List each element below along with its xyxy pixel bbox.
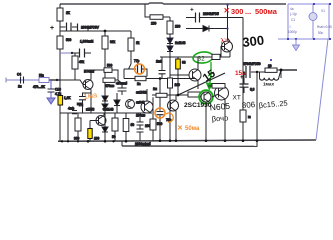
svg-text:ат948: ат948 bbox=[136, 100, 145, 104]
svg-text:806: 806 bbox=[242, 100, 256, 110]
ground blue input bbox=[47, 98, 55, 104]
svg-text:...: ... bbox=[245, 7, 251, 16]
svg-text:+: + bbox=[240, 75, 244, 81]
wire left rail bbox=[59, 4, 61, 141]
svg-text:1000MFD5V: 1000MFD5V bbox=[81, 26, 100, 30]
transistor Q4 bbox=[221, 41, 233, 57]
svg-text:1K: 1K bbox=[66, 11, 71, 15]
svg-text:40k: 40k bbox=[79, 60, 85, 64]
wire output column bbox=[280, 70, 282, 78]
svg-text:50: 50 bbox=[112, 135, 116, 139]
resistor 530 bbox=[57, 36, 94, 49]
svg-text:300: 300 bbox=[242, 32, 265, 50]
svg-text:Rin: Rin bbox=[39, 73, 44, 77]
wire inner bottom bus bbox=[122, 145, 258, 147]
wire bias bus bbox=[60, 27, 131, 31]
resistor 130 horizontal bbox=[145, 15, 170, 26]
svg-text:100: 100 bbox=[175, 83, 181, 87]
wire lower left frame bbox=[60, 113, 152, 141]
wire drop 257 bbox=[256, 72, 258, 146]
transistor Q8 bbox=[90, 113, 106, 126]
svg-text:530: 530 bbox=[66, 38, 72, 42]
node bias bbox=[104, 30, 107, 33]
wire drops to bus bbox=[206, 99, 225, 141]
ground blue sim bbox=[293, 39, 300, 51]
transistor Q5 bbox=[215, 84, 229, 100]
wire down from loop bbox=[159, 79, 161, 110]
resistor base Q5 bbox=[208, 84, 225, 89]
svg-text:2SC1930: 2SC1930 bbox=[184, 102, 212, 109]
resistor hbox2 470mv bbox=[103, 78, 118, 88]
node loop bbox=[159, 77, 162, 80]
wire speaker tap bbox=[270, 59, 297, 72]
svg-text:68: 68 bbox=[182, 60, 186, 64]
svg-text:500: 500 bbox=[107, 63, 113, 67]
svg-text:+: + bbox=[50, 25, 54, 32]
svg-text:1k: 1k bbox=[136, 41, 140, 45]
resistor 1m small bbox=[153, 87, 167, 97]
svg-text:50u: 50u bbox=[318, 31, 324, 35]
svg-text:+: + bbox=[190, 6, 194, 13]
annotation orange 50ma bbox=[177, 125, 200, 132]
svg-text:мдд: мдд bbox=[77, 102, 83, 106]
svg-text:500ма: 500ма bbox=[255, 7, 278, 16]
resistor 40k bbox=[72, 53, 85, 80]
inductor 1mH bbox=[260, 70, 282, 87]
wire top supply rail bbox=[60, 3, 286, 4]
annotation pointer diagonal bbox=[178, 73, 225, 95]
diode D6 bbox=[102, 118, 108, 141]
svg-text:32: 32 bbox=[198, 56, 206, 63]
annotation green ellipse 32 bbox=[192, 51, 213, 64]
diode D2b second column bbox=[114, 93, 120, 113]
svg-text:300: 300 bbox=[231, 7, 243, 16]
svg-text:6x4148: 6x4148 bbox=[103, 108, 114, 112]
svg-text:15: 15 bbox=[201, 68, 218, 85]
diode D2 bbox=[102, 101, 108, 118]
svg-text:✕: ✕ bbox=[177, 125, 183, 132]
transistor Q6 green circled bbox=[199, 90, 218, 104]
resistor 820 bbox=[123, 113, 134, 141]
capacitor 1000uf input bbox=[50, 23, 100, 33]
resistor 50 bbox=[112, 113, 118, 141]
wire q7 connections bbox=[152, 95, 178, 106]
resistor base Q6 bbox=[178, 92, 201, 97]
wire Q4 collector bbox=[222, 4, 230, 42]
svg-text:βочо: βочо bbox=[212, 113, 229, 123]
svg-text:1м: 1м bbox=[153, 87, 157, 91]
svg-text:400маб: 400маб bbox=[116, 82, 127, 86]
resistor 91k bbox=[102, 31, 116, 96]
annotation green arrow bbox=[207, 74, 213, 89]
transistor Q3 bbox=[170, 57, 201, 89]
capacitor 400mab bbox=[116, 80, 127, 95]
svg-text:300: 300 bbox=[74, 137, 80, 141]
wire node53 blue bbox=[60, 52, 72, 54]
yellow comp input rail bbox=[58, 96, 71, 106]
svg-text:1,6K: 1,6K bbox=[64, 96, 71, 100]
svg-text:77p: 77p bbox=[134, 59, 140, 63]
svg-text:4a: 4a bbox=[290, 7, 294, 11]
svg-text:C4: C4 bbox=[17, 72, 21, 76]
wire drop to driver bbox=[144, 4, 146, 15]
resistor 10 bbox=[265, 64, 281, 73]
wire mid rail bbox=[160, 57, 230, 141]
resistor 2n bbox=[135, 76, 146, 86]
svg-text:✕: ✕ bbox=[224, 6, 230, 15]
wire input line blue bbox=[6, 79, 48, 81]
capacitor 2200uf top bbox=[186, 6, 228, 22]
svg-text:50ма: 50ма bbox=[185, 126, 200, 132]
diode D4 bbox=[167, 46, 173, 57]
resistor on rail bbox=[212, 54, 220, 59]
resistor Rin 470-1K bbox=[33, 73, 49, 89]
diode D1 bbox=[102, 96, 108, 101]
svg-text:2n: 2n bbox=[137, 82, 141, 86]
svg-text:г1553: г1553 bbox=[86, 108, 94, 112]
svg-text:m: m bbox=[248, 115, 251, 119]
svg-text:1000p: 1000p bbox=[288, 30, 297, 34]
blue node dots bbox=[287, 3, 331, 40]
capacitor 75p bbox=[157, 109, 172, 141]
svg-text:100мв: 100мв bbox=[136, 114, 146, 118]
transistor Q2b bbox=[126, 100, 135, 109]
transistor Q7 bbox=[168, 95, 179, 141]
svg-text:ΧΤ: ΧΤ bbox=[233, 95, 241, 102]
svg-text:1мах: 1мах bbox=[263, 82, 274, 87]
input terminal bbox=[5, 78, 7, 83]
resistor 300 bbox=[74, 113, 81, 141]
svg-text:б0: б0 bbox=[131, 123, 135, 127]
diode D3 bbox=[167, 38, 186, 46]
svg-text:Rser=0.05: Rser=0.05 bbox=[317, 25, 332, 29]
blue labels bbox=[288, 7, 332, 35]
svg-text:C10: C10 bbox=[55, 87, 61, 91]
wire loop feedback bbox=[124, 64, 196, 79]
svg-text:βс15..25: βс15..25 bbox=[258, 99, 288, 110]
svg-text:1u: 1u bbox=[18, 85, 22, 89]
svg-text:1x4148: 1x4148 bbox=[175, 41, 186, 45]
svg-text:130: 130 bbox=[175, 25, 181, 29]
wire base Q1 bbox=[57, 80, 86, 85]
svg-text:500: 500 bbox=[157, 122, 163, 126]
svg-text:2200MFD5: 2200MFD5 bbox=[203, 12, 219, 16]
svg-text:1000мфдб: 1000мфдб bbox=[135, 142, 151, 146]
annotation green tick t bbox=[208, 62, 214, 76]
blue source V1 bbox=[309, 4, 317, 39]
svg-text:(-1)p: (-1)p bbox=[290, 12, 297, 16]
capacitor C4 bbox=[17, 72, 24, 88]
svg-text:△: △ bbox=[289, 24, 292, 28]
svg-text:V1: V1 bbox=[321, 9, 325, 13]
annotation orange circle 75p bbox=[155, 108, 165, 118]
resistor 68 yellow bbox=[176, 57, 186, 95]
capacitor 1000mfd bbox=[136, 114, 151, 141]
resistor 1K bbox=[57, 8, 71, 21]
capacitor emitter bbox=[77, 93, 91, 113]
resistor 100 mid bbox=[168, 78, 181, 88]
svg-text:C1: C1 bbox=[291, 18, 295, 22]
capacitor at node53 bbox=[72, 49, 91, 58]
resistor 1R out bbox=[240, 110, 251, 122]
transistor Q2 crossed bbox=[141, 89, 153, 113]
wire bus corner bbox=[121, 141, 123, 146]
resistor 500 bbox=[150, 97, 163, 141]
capacitor 1mb bbox=[156, 57, 166, 79]
svg-text:6,3: 6,3 bbox=[250, 87, 255, 91]
annotation red X 300 500ma bbox=[224, 6, 278, 16]
blue sim box top bbox=[278, 4, 329, 140]
resistor 1k mid bbox=[128, 31, 140, 64]
svg-text:10: 10 bbox=[268, 64, 272, 68]
svg-text:1ма: 1ма bbox=[83, 90, 98, 101]
node53 dot bbox=[71, 52, 73, 54]
annotation orange part circle bbox=[166, 113, 173, 122]
wire bottom ground bus bbox=[58, 140, 316, 141]
capacitor 4mb bbox=[68, 107, 77, 114]
wire input to node bbox=[48, 79, 60, 81]
svg-text:100: 100 bbox=[94, 136, 100, 140]
svg-text:N605: N605 bbox=[209, 101, 230, 113]
capacitor 77p bbox=[124, 59, 147, 77]
resistor 100 yellow bbox=[88, 121, 100, 142]
svg-text:ат1302: ат1302 bbox=[136, 90, 146, 94]
resistor 130 vertical bbox=[167, 17, 181, 38]
svg-text:470мв: 470мв bbox=[105, 84, 115, 88]
wire right power column bbox=[228, 18, 244, 141]
annotation orange circle cap bbox=[135, 64, 145, 74]
capacitor C10 blue bbox=[48, 80, 62, 98]
svg-text:91k: 91k bbox=[110, 40, 116, 44]
capacitor 4700uf bbox=[240, 62, 265, 81]
capacitor 6.3 bbox=[240, 72, 255, 93]
svg-text:1,000mfd: 1,000mfd bbox=[80, 40, 94, 44]
svg-text:470...1K: 470...1K bbox=[33, 85, 46, 89]
svg-text:λ>: λ> bbox=[220, 35, 230, 45]
svg-text:4700MFD50: 4700MFD50 bbox=[243, 62, 261, 66]
node input dot bbox=[56, 79, 58, 81]
transistor Q1 bbox=[83, 70, 95, 113]
svg-text:1mb: 1mb bbox=[156, 59, 162, 63]
node dots bottom bbox=[61, 139, 258, 142]
diode D5 bbox=[186, 26, 222, 32]
svg-text:130: 130 bbox=[151, 21, 157, 25]
svg-text:4mb: 4mb bbox=[68, 107, 74, 111]
resistor hbox1 bbox=[91, 63, 118, 80]
